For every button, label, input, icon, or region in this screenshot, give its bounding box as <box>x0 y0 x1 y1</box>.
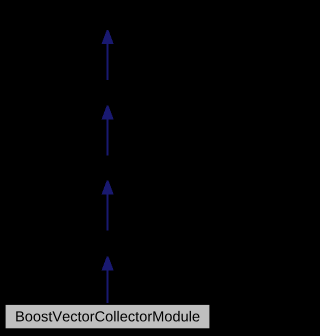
wire: inheritance edge 4 (bottom) <box>102 257 114 303</box>
wire: inheritance edge 1 (topmost) <box>102 30 114 80</box>
wire: inheritance edge 2 <box>102 106 114 156</box>
wire: inheritance edge 3 <box>102 181 114 231</box>
node BoostVectorCollectorModule (current class, grey box) <box>5 304 210 328</box>
